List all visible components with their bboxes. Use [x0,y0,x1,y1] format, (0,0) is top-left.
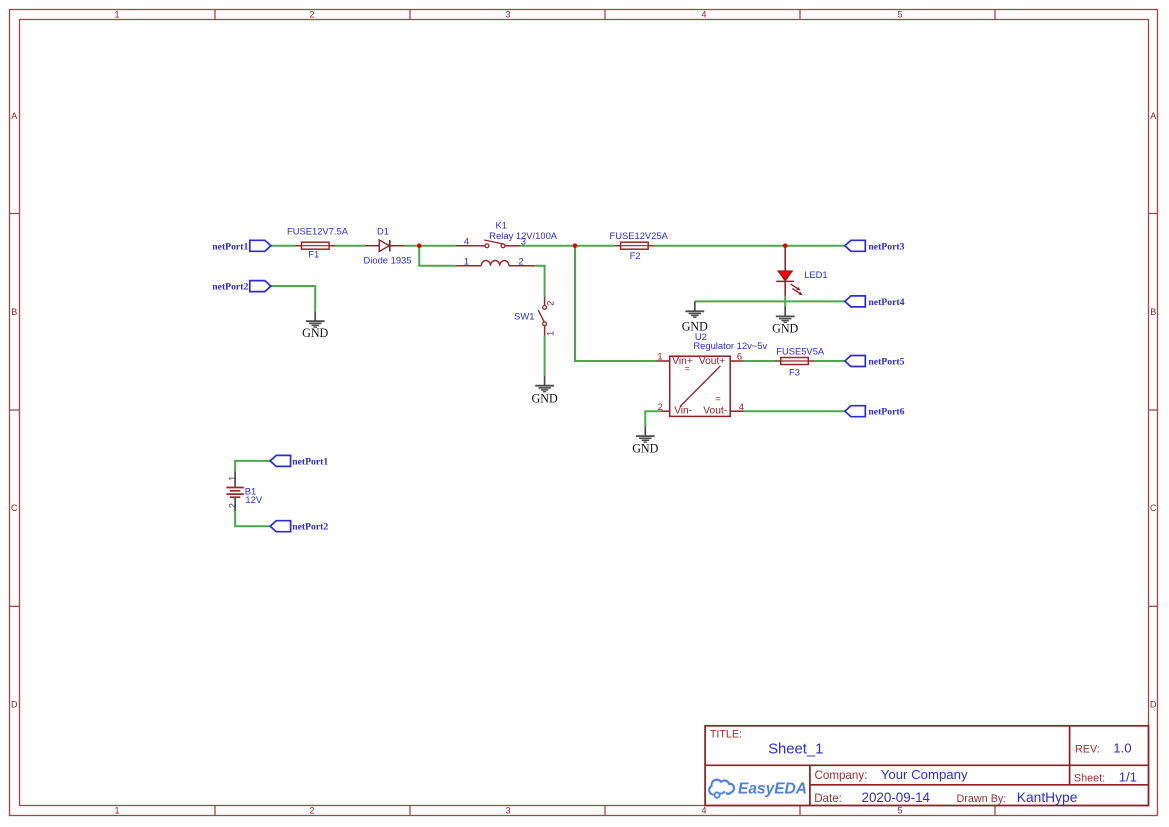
svg-text:2: 2 [309,10,314,20]
switch SW1 [514,297,555,336]
svg-text:2020-09-14: 2020-09-14 [862,790,931,805]
svg-text:EasyEDA: EasyEDA [738,780,807,797]
fuse F2 [610,230,669,261]
wire relay pin 3 to node J2 and fuse F2 [520,245,615,247]
svg-text:Regulator 12v~5v: Regulator 12v~5v [693,340,767,351]
svg-text:Sheet_1: Sheet_1 [768,741,823,757]
wire regulator pin 2 to ground [645,411,660,426]
svg-text:netPort6: netPort6 [868,407,904,418]
node J1 junction dot [417,243,422,248]
svg-text:Company:: Company: [815,769,868,782]
svg-text:FUSE5V5A: FUSE5V5A [776,345,825,356]
wire LED cathode to ground [784,296,786,306]
svg-text:Date:: Date: [814,792,842,805]
battery B1 [226,471,262,511]
ground (regulator pin 2) [632,426,658,455]
svg-text:C: C [1150,503,1157,513]
net port netPort1 [212,240,271,252]
relay K1 [455,220,558,267]
svg-text:GND: GND [302,326,328,340]
ground (LED cathode) [772,307,798,336]
LED LED1 [776,247,827,296]
svg-text:Vout+: Vout+ [699,356,725,367]
fuse F3 [775,345,825,377]
wire fuse F1 to diode D1 [334,245,365,247]
svg-text:12V: 12V [245,494,262,505]
svg-text:TITLE:: TITLE: [710,729,742,741]
wire netPort2 to ground [271,286,315,311]
wire ground to LED and netPort4 [695,300,845,302]
wire battery pin 2 to netPort2 [235,511,270,526]
wire node J2 down to regulator pin 1 [575,246,656,361]
svg-text:Your Company: Your Company [881,767,968,782]
svg-text:5: 5 [897,10,902,20]
net port netPort6 [845,406,905,418]
node J3 junction dot [783,243,788,248]
svg-text:GND: GND [531,391,557,405]
svg-text:1: 1 [114,806,119,816]
svg-text:Vout-: Vout- [703,406,727,417]
svg-text:F2: F2 [630,250,641,261]
svg-text:B: B [1150,307,1156,317]
svg-text:B: B [11,307,17,317]
svg-text:2: 2 [545,301,556,306]
ground (left of LED, netPort4 row) [682,301,708,333]
svg-text:Sheet:: Sheet: [1074,772,1105,784]
wire node J1 down to relay coil pin 1 [419,246,455,266]
EasyEDA logo [709,780,807,798]
svg-text:A: A [11,111,17,121]
svg-text:GND: GND [632,441,658,455]
svg-text:Diode 1935: Diode 1935 [364,255,412,266]
svg-text:K1: K1 [496,220,507,231]
wire netPort1 to fuse F1 [271,245,296,247]
svg-text:1: 1 [657,350,662,361]
svg-text:netPort1: netPort1 [292,456,328,467]
net port netPort3 [845,240,905,252]
svg-text:4: 4 [701,806,706,816]
fuse F1 [287,226,349,260]
svg-text:1: 1 [464,255,469,266]
svg-text:netPort2: netPort2 [292,522,328,533]
svg-text:1: 1 [545,331,556,336]
svg-text:5: 5 [897,806,902,816]
svg-text:netPort4: netPort4 [868,297,904,308]
ground (SW1) [531,376,557,406]
wire fuse F2 to node J3 and netPort3 [654,245,845,247]
svg-text:D1: D1 [377,226,389,237]
svg-text:4: 4 [464,235,469,246]
svg-text:6: 6 [737,350,742,361]
ground (netPort2) [302,311,328,340]
svg-text:GND: GND [682,319,708,333]
svg-text:LED1: LED1 [804,269,827,280]
net port netPort2 [212,281,271,293]
wire relay coil pin 2 to switch SW1 [535,266,544,297]
net port netPort1 (battery) [270,455,328,467]
svg-text:F3: F3 [789,367,800,378]
svg-text:Vin-: Vin- [674,406,692,417]
svg-text:3: 3 [505,10,510,20]
wire fuse F3 to netPort5 [814,360,845,362]
wire regulator pin 4 to netPort6 [744,410,845,412]
svg-text:netPort1: netPort1 [212,241,248,252]
node J2 junction dot [573,243,578,248]
svg-text:SW1: SW1 [514,310,534,321]
svg-text:REV:: REV: [1075,743,1100,755]
svg-text:3: 3 [521,235,526,246]
svg-text:F1: F1 [308,249,319,260]
svg-text:2: 2 [309,806,314,816]
svg-text:2: 2 [226,503,237,508]
net port netPort5 [845,356,905,368]
svg-text:1.0: 1.0 [1113,740,1131,755]
svg-text:3: 3 [505,806,510,816]
wire battery pin 1 to netPort1 [235,461,270,471]
net port netPort4 [845,296,905,308]
wire switch SW1 to ground [544,336,546,376]
svg-text:A: A [1150,111,1156,121]
wire regulator pin 6 to fuse F3 [744,360,775,362]
svg-text:D: D [1150,700,1157,710]
svg-text:netPort2: netPort2 [212,282,248,293]
svg-text:KantHype: KantHype [1017,790,1078,805]
svg-text:1: 1 [226,476,237,481]
net port netPort2 (battery) [270,521,328,533]
svg-text:1: 1 [114,10,119,20]
svg-text:netPort5: netPort5 [868,357,904,368]
title block [705,726,1148,806]
svg-text:2: 2 [658,401,663,412]
diode D1 [364,226,412,266]
svg-text:1/1: 1/1 [1119,769,1137,784]
svg-text:C: C [11,503,18,513]
svg-text:netPort3: netPort3 [868,241,904,252]
regulator U2 [656,331,767,416]
svg-text:=: = [715,393,721,404]
svg-text:GND: GND [772,321,798,335]
svg-text:D: D [11,700,18,710]
svg-text:4: 4 [739,401,744,412]
svg-text:2: 2 [518,255,523,266]
wire diode D1 to node J1 and relay pin 4 [405,245,456,247]
svg-text:Drawn By:: Drawn By: [957,793,1007,805]
svg-text:FUSE12V7.5A: FUSE12V7.5A [287,226,349,237]
svg-text:4: 4 [701,10,706,20]
svg-text:=: = [684,363,690,374]
svg-text:FUSE12V25A: FUSE12V25A [610,230,669,241]
